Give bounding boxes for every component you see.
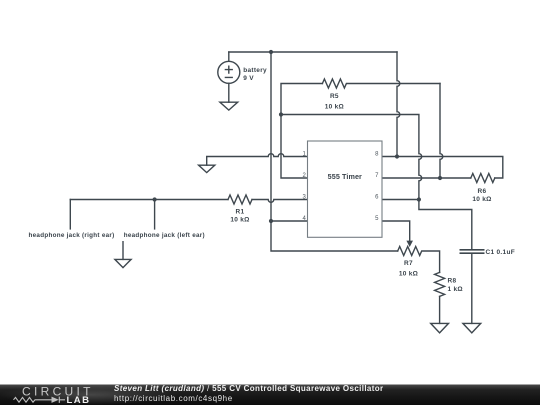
logo resistor-diode glyph [14, 397, 66, 403]
wire VCC top rail [229, 51, 397, 53]
wire pin5 to R7 wiper [382, 221, 410, 241]
node pin6 junction [417, 197, 421, 201]
svg-text:9 V: 9 V [243, 75, 254, 82]
wire VCC right vertical x=397 to pin8 (hops R5 and link wires) [397, 52, 400, 157]
svg-text:10 kΩ: 10 kΩ [325, 103, 344, 110]
battery V1 [218, 52, 240, 102]
ground battery [220, 102, 238, 110]
ground R8 [431, 323, 449, 332]
svg-text:headphone jack (right ear): headphone jack (right ear) [29, 232, 115, 239]
node pin8 junction [395, 154, 399, 158]
wire pin8 row to R6 top corner [382, 157, 503, 179]
node TRIG-THRES junction at x=281 [279, 112, 283, 116]
svg-text:10 kΩ: 10 kΩ [399, 270, 418, 277]
resistor R1 and pin3 wire (hops x=271) [70, 195, 307, 204]
capacitor C1 [460, 250, 483, 324]
resistor R6 [382, 174, 495, 183]
svg-text:R5: R5 [330, 93, 339, 100]
ground C1 [463, 323, 481, 332]
svg-text:R8: R8 [448, 277, 457, 284]
node pin4 junction [269, 219, 273, 223]
wire headphone right ear drop [69, 200, 71, 229]
node pin7 junction [438, 176, 442, 180]
svg-text:R1: R1 [236, 208, 245, 215]
junction dots [153, 50, 443, 223]
svg-text:Steven Litt (crudland) / 555 C: Steven Litt (crudland) / 555 CV Controll… [114, 384, 384, 393]
wire pin4 stub [271, 220, 308, 222]
resistor R5 [281, 79, 440, 178]
svg-text:C1 0.1uF: C1 0.1uF [486, 249, 516, 256]
op-amp U1 555 timer box [308, 141, 383, 237]
node headphone left junction [153, 197, 157, 201]
potentiometer R7 [398, 241, 440, 273]
wire R5 right vertical to pin7 (hops pin8 row) [440, 84, 443, 179]
svg-text:R6: R6 [478, 188, 487, 195]
svg-text:LAB: LAB [67, 395, 91, 405]
ground headphone [115, 242, 131, 268]
svg-text:10 kΩ: 10 kΩ [472, 196, 491, 203]
wire pin1 to ground (hops x=271 and x=281) [207, 154, 308, 165]
node VCC junction at x=271 [269, 50, 273, 54]
svg-text:555 Timer: 555 Timer [328, 172, 362, 181]
wire pin6 stub [382, 199, 419, 201]
wire THRES-TRIG link y=114.5 to pin6 (vertical hops pin8,pin7 rows) then to C1 [281, 115, 472, 250]
footer bar [0, 385, 540, 406]
wire headphone left ear drop [154, 200, 156, 229]
pin numbers [303, 151, 380, 222]
ground pin1 [199, 165, 215, 172]
svg-text:10 kΩ: 10 kΩ [230, 216, 249, 223]
svg-text:headphone jack (left ear): headphone jack (left ear) [124, 232, 205, 239]
resistor R8 [435, 272, 445, 323]
svg-text:R7: R7 [404, 260, 413, 267]
svg-text:1 kΩ: 1 kΩ [448, 286, 463, 293]
svg-text:http://circuitlab.com/c4sq9he: http://circuitlab.com/c4sq9he [114, 394, 233, 403]
svg-text:battery: battery [243, 67, 267, 74]
wire VCC left vertical x=271 down to R7 row [271, 52, 398, 251]
